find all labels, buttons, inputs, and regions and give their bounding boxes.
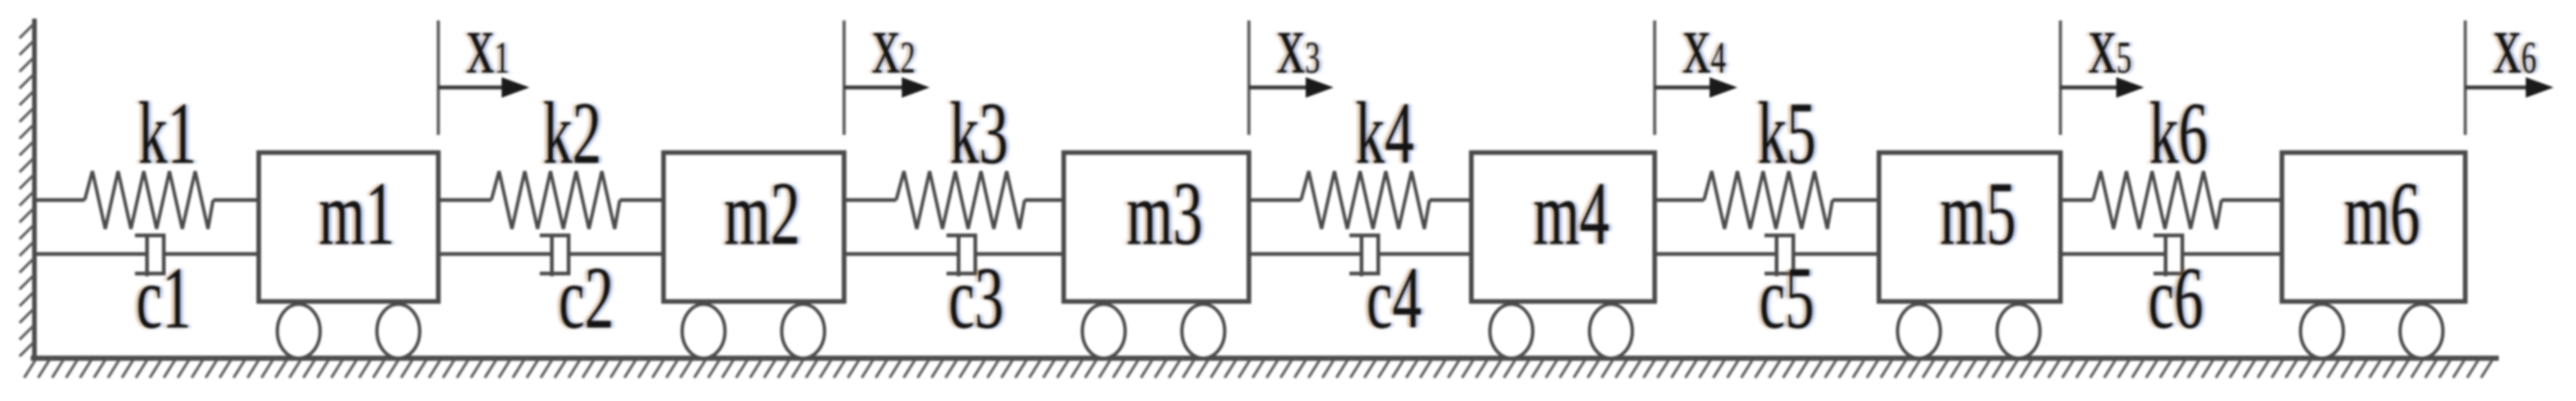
svg-text:m2: m2: [724, 164, 800, 263]
svg-text:k2: k2: [543, 85, 602, 182]
svg-text:m4: m4: [1534, 164, 1610, 263]
svg-text:c6: c6: [2148, 249, 2203, 347]
svg-text:x5: x5: [2088, 0, 2132, 91]
svg-text:x3: x3: [1277, 0, 1321, 91]
svg-text:c1: c1: [136, 249, 191, 347]
svg-text:m5: m5: [1940, 164, 2017, 263]
svg-text:x2: x2: [872, 0, 916, 91]
svg-text:m1: m1: [319, 164, 396, 263]
svg-text:x4: x4: [1683, 0, 1726, 91]
svg-text:c5: c5: [1759, 249, 1814, 347]
svg-text:x6: x6: [2493, 0, 2537, 91]
svg-text:k6: k6: [2150, 85, 2208, 182]
svg-text:c3: c3: [948, 249, 1003, 347]
svg-text:k1: k1: [139, 85, 197, 182]
svg-text:c2: c2: [558, 249, 613, 347]
svg-text:k5: k5: [1758, 85, 1817, 182]
svg-text:x1: x1: [466, 0, 510, 91]
svg-text:m6: m6: [2344, 164, 2421, 263]
svg-text:m3: m3: [1127, 164, 1203, 263]
svg-text:c4: c4: [1366, 249, 1421, 347]
svg-text:k4: k4: [1356, 85, 1415, 182]
svg-text:k3: k3: [950, 85, 1009, 182]
